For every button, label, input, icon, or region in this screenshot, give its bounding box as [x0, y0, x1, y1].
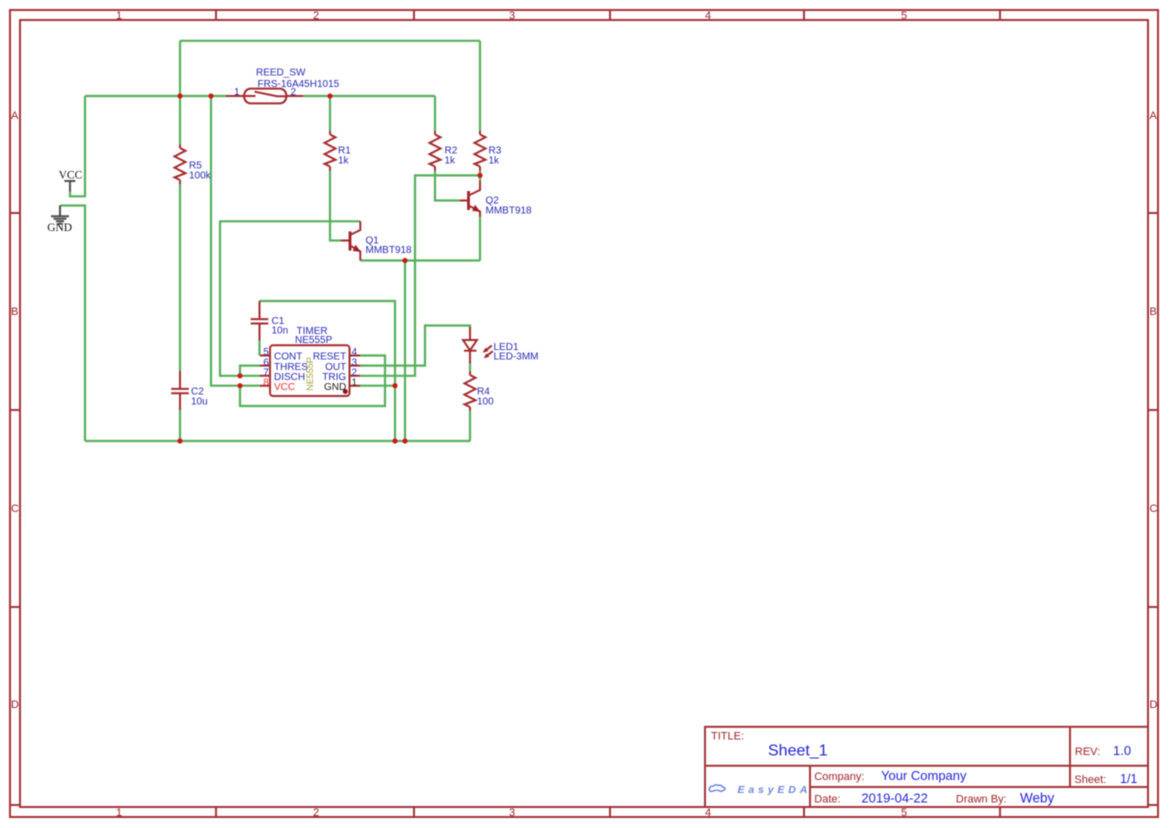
wire GND pin 1 [360, 385, 395, 387]
svg-text:Company:: Company: [814, 771, 864, 783]
svg-text:1: 1 [116, 10, 122, 22]
svg-text:REV:: REV: [1075, 746, 1100, 758]
frame column numbers top [116, 10, 907, 22]
node reed-R5 junction [177, 93, 182, 98]
svg-text:1.0: 1.0 [1113, 743, 1131, 758]
svg-text:1k: 1k [445, 156, 457, 167]
svg-text:1k: 1k [338, 156, 350, 167]
node C1-ground rail junction [392, 438, 397, 443]
svg-text:MMBT918: MMBT918 [366, 245, 413, 256]
node reed-VCC junction [208, 93, 213, 98]
wire C1 top to GND net [260, 301, 396, 441]
wire LED to R4 [469, 364, 471, 372]
transistor Q1 [341, 221, 412, 260]
node VCC-RESET junction [237, 383, 242, 388]
wire R3 top feed [479, 41, 481, 131]
wire RESET to VCC loop [240, 356, 385, 407]
wire R1 to Q1 base [330, 171, 341, 241]
node GND pin junction [392, 383, 397, 388]
wire Q2 emitter drop [479, 217, 481, 261]
wire bottom ground rail [85, 440, 470, 442]
svg-text:Your Company: Your Company [881, 768, 967, 783]
wire R5 to C2 [179, 184, 181, 371]
resistor R3 [475, 131, 502, 171]
node emitter rail junction [402, 258, 407, 263]
svg-text:A: A [1150, 110, 1158, 122]
wire top rail [180, 40, 480, 42]
wire Q1 collector to THRES/DISCH [220, 221, 360, 375]
svg-text:VCC: VCC [59, 170, 83, 182]
svg-text:GND: GND [324, 382, 346, 393]
svg-text:3: 3 [509, 807, 515, 819]
svg-text:2: 2 [291, 87, 297, 98]
node reed-R1 junction [327, 93, 332, 98]
svg-text:REED_SW: REED_SW [256, 67, 306, 78]
wire R2 top feed [434, 96, 436, 131]
svg-text:EasyEDA: EasyEDA [738, 784, 812, 796]
resistor R4 [465, 372, 495, 411]
svg-text:GND: GND [47, 222, 72, 234]
svg-text:MMBT918: MMBT918 [486, 205, 533, 216]
frame column numbers bottom [116, 807, 907, 819]
node C2-ground rail junction [177, 438, 182, 443]
svg-text:C: C [11, 503, 19, 515]
svg-text:TITLE:: TITLE: [711, 731, 744, 743]
svg-text:B: B [1150, 306, 1157, 318]
svg-text:2: 2 [313, 10, 319, 22]
svg-text:1: 1 [352, 377, 358, 388]
resistor R5 [175, 145, 212, 185]
ground GND symbol [47, 206, 72, 235]
transistor Q2 [460, 181, 532, 217]
svg-text:2019-04-22: 2019-04-22 [861, 791, 928, 806]
svg-text:NE555P: NE555P [295, 335, 333, 346]
EasyEDA logo [709, 784, 811, 796]
svg-text:8: 8 [263, 377, 269, 388]
svg-text:100k: 100k [189, 171, 212, 182]
svg-text:10u: 10u [191, 396, 208, 407]
pin 1 marker dot [343, 389, 348, 394]
svg-text:NE555P: NE555P [305, 357, 315, 391]
wire OUT to LED [360, 326, 470, 366]
capacitor C2 [171, 371, 207, 410]
wire reed row left [85, 95, 226, 97]
svg-text:Sheet_1: Sheet_1 [768, 743, 828, 760]
svg-text:LED-3MM: LED-3MM [494, 352, 539, 363]
svg-text:Drawn By:: Drawn By: [956, 794, 1007, 806]
svg-text:5: 5 [901, 807, 907, 819]
svg-text:3: 3 [509, 10, 515, 22]
svg-text:Weby: Weby [1020, 791, 1055, 806]
wire R2 to Q2 base [435, 171, 460, 201]
node THRES-DISCH junction [237, 373, 242, 378]
node VCC power symbol [59, 170, 83, 192]
wire VCC hook [70, 96, 85, 196]
wire THRES branch [240, 366, 260, 376]
wire emitter rail to ground [404, 261, 406, 442]
svg-text:1k: 1k [489, 156, 501, 167]
svg-text:1: 1 [234, 87, 240, 98]
wire C2 to ground rail [179, 410, 181, 441]
op-amp U1 : NE555P timer body [260, 326, 360, 396]
title block frame [705, 727, 1148, 807]
wire top rail left drop [179, 41, 181, 96]
wire Q1 emitter rail [360, 259, 480, 261]
svg-text:FRS-16A45H1015: FRS-16A45H1015 [258, 79, 340, 90]
svg-text:Date:: Date: [814, 794, 840, 806]
svg-text:2: 2 [313, 807, 319, 819]
svg-text:Sheet:: Sheet: [1074, 774, 1106, 786]
svg-text:C: C [1150, 503, 1158, 515]
wire R1 top feed [329, 96, 331, 131]
svg-text:A: A [11, 110, 19, 122]
wire R5 top feed [179, 96, 181, 145]
wire R3 bottom node [479, 171, 481, 183]
wire C1 bottom to CONT [258, 341, 260, 356]
svg-text:VCC: VCC [274, 382, 295, 393]
frame row letters right [1150, 110, 1158, 711]
wire GND hook [60, 206, 85, 442]
node R3-Q2 collector junction [477, 173, 482, 178]
wire TRIG to R3/Q2 collector [360, 175, 480, 375]
node emitter-ground rail junction [402, 438, 407, 443]
wire VCC net vertical to pin 8 [211, 96, 260, 386]
junction dots [177, 93, 482, 443]
svg-text:4: 4 [705, 807, 711, 819]
svg-text:D: D [1150, 699, 1158, 711]
svg-text:5: 5 [901, 10, 907, 22]
svg-text:D: D [11, 699, 19, 711]
svg-text:1: 1 [116, 807, 122, 819]
svg-text:10n: 10n [272, 325, 289, 336]
frame row letters left [11, 110, 19, 711]
svg-text:100: 100 [477, 397, 494, 408]
reed switch REED_SW [226, 67, 340, 103]
wire reed row right [303, 95, 435, 97]
wire R4 to ground rail [469, 411, 471, 442]
resistor R1 [325, 131, 352, 171]
capacitor C1 [251, 301, 288, 341]
svg-text:B: B [11, 306, 18, 318]
svg-text:1/1: 1/1 [1120, 772, 1137, 786]
resistor R2 [430, 131, 458, 171]
LED LED1 [463, 327, 539, 364]
svg-text:4: 4 [705, 10, 711, 22]
